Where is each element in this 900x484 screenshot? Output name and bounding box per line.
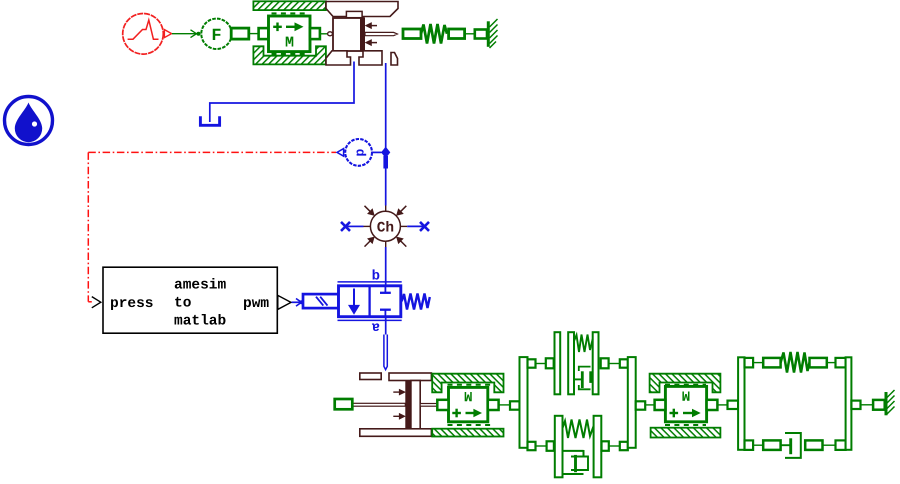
- plug X right: [420, 222, 429, 231]
- SD2 right port: [602, 441, 609, 451]
- svg-text:amesim: amesim: [174, 278, 227, 294]
- interface block amesim-to-matlab: [103, 267, 277, 333]
- spool arrow lower: [366, 40, 377, 45]
- damper D1: [781, 433, 801, 458]
- solenoid actuator: [303, 294, 339, 308]
- svg-text:F: F: [211, 27, 221, 46]
- fork2 left stub: [728, 401, 739, 409]
- fork2 left bar: [738, 357, 744, 450]
- svg-text:pwm: pwm: [243, 296, 269, 312]
- fork2 left bottom port: [745, 440, 754, 450]
- damper D1 connector right: [805, 440, 822, 450]
- chamber Ch: [364, 206, 408, 248]
- wire fork2 to spring: [753, 362, 763, 364]
- valve port label a (flipped): [371, 319, 380, 335]
- spring K2 connector right: [810, 358, 827, 368]
- SD1 plate 1: [555, 332, 561, 394]
- valve frame line bottom: [338, 319, 402, 321]
- fork1 left bottom port: [528, 442, 536, 450]
- fork1 right bar: [628, 357, 636, 448]
- jack rod end connector: [335, 399, 353, 409]
- fork2 right bottom port: [836, 440, 846, 450]
- mass M2 top housing (hatched bracket): [432, 374, 503, 393]
- signal wire to F: [172, 30, 197, 38]
- svg-text:M: M: [682, 386, 690, 402]
- svg-text:b: b: [372, 269, 380, 285]
- friction contact dashes top: [272, 12, 308, 14]
- jack bottom plate: [360, 429, 432, 437]
- hydraulic pipe valve to tank: [210, 62, 354, 123]
- fork1 left bar: [520, 357, 528, 448]
- wire damper to fork2 right: [823, 444, 836, 446]
- jack top-left plate: [360, 373, 381, 380]
- valve left cell arrow down: [348, 289, 360, 315]
- SD1 right port: [601, 358, 609, 368]
- SD1 damper: [573, 367, 592, 390]
- spring connector right: [449, 29, 465, 39]
- svg-text:press: press: [110, 296, 154, 312]
- spool drain flag: [391, 53, 398, 66]
- svg-text:p: p: [352, 149, 367, 157]
- mass M3 left port: [655, 400, 666, 410]
- fork2 right top port: [836, 358, 846, 368]
- fork2 left top port: [745, 358, 754, 368]
- jack arrow upper: [393, 390, 405, 395]
- mass M1 bottom wall tray (hatched): [253, 46, 326, 64]
- pipe chamber to valve b-port: [385, 247, 387, 286]
- mass M2 right port: [488, 400, 499, 410]
- wall right (fixed): [886, 390, 895, 415]
- valve right cell plugged ports: [380, 286, 391, 317]
- SD1 plate 2: [568, 332, 574, 394]
- pressure tap junction: [381, 147, 390, 169]
- mass M3 top housing (hatched bracket): [650, 374, 721, 393]
- jack top-right plate: [389, 373, 431, 381]
- spool rod to spring: [365, 32, 397, 35]
- signal feedback dash-dot wire: [88, 152, 336, 301]
- jack arrow lower: [393, 414, 405, 419]
- wire M2 to fork1: [499, 404, 510, 406]
- signal source output port: [164, 30, 171, 38]
- hydraulic pipe valve to chamber (vertical): [385, 63, 387, 206]
- mass M1 top wall (hatched): [253, 1, 326, 10]
- fork1 left stub: [510, 401, 520, 409]
- SD2 damper: [563, 450, 589, 474]
- connector rod F to mass: [231, 28, 268, 39]
- SD1 plate 3: [593, 332, 599, 394]
- fork1 right stub: [636, 401, 646, 409]
- friction contact dashes bottom: [272, 53, 308, 55]
- chamber right plug line: [407, 225, 423, 227]
- damper D1 connector left: [763, 440, 780, 450]
- wire fork1 to M3: [645, 404, 654, 406]
- svg-text:M: M: [285, 35, 294, 52]
- SD1 spring: [574, 335, 593, 353]
- chamber arrow bottom-right: [397, 237, 407, 246]
- jack rod right: [420, 404, 437, 407]
- fork2 right stub: [851, 401, 860, 409]
- servovalve spool top cover: [326, 2, 398, 17]
- fork1 left top port: [528, 359, 536, 367]
- spool body: [333, 18, 364, 51]
- jack rod left: [352, 403, 405, 406]
- wire fork1 to sd2: [536, 445, 547, 447]
- spring-damper SD1 left port: [546, 358, 554, 368]
- wall (fixed): [488, 19, 497, 48]
- mass M1 body: [269, 16, 311, 52]
- mass M3 right port: [707, 400, 718, 410]
- interface output port: [278, 295, 291, 309]
- pipe valve a-port down: [385, 317, 387, 335]
- spring-damper SD2 left port: [547, 441, 554, 451]
- spring K2 connector left: [763, 358, 780, 368]
- svg-text:matlab: matlab: [174, 314, 227, 330]
- spring connector left: [403, 29, 421, 39]
- mass M3 body (flipped): [665, 386, 706, 421]
- spool sleeve bottom left: [326, 51, 351, 65]
- jack piston body: [411, 381, 420, 429]
- SD2 plate 1: [555, 416, 563, 478]
- pressure sensor signal port: [337, 149, 344, 157]
- wire sd1 to fork1 right: [609, 363, 620, 365]
- tank T1: [200, 116, 219, 125]
- spool land (dark bar): [360, 18, 365, 52]
- wall connector: [475, 30, 487, 39]
- SD2 plate 2: [594, 416, 602, 478]
- SD2 spring: [563, 420, 594, 439]
- jack piston dark land: [405, 381, 411, 429]
- spool pin left: [328, 32, 333, 36]
- wire spring to fork2 right: [827, 362, 836, 364]
- spool sleeve bottom right: [359, 51, 382, 65]
- fork1 right bottom port: [620, 442, 628, 450]
- svg-text:a: a: [371, 319, 380, 335]
- signal source (piecewise linear input): [123, 14, 164, 55]
- svg-text:to: to: [174, 296, 192, 312]
- friction dashes: [665, 384, 706, 386]
- pipe doubled segment to jack: [384, 335, 387, 370]
- mass M1 right port: [310, 28, 320, 39]
- valve frame line top: [338, 281, 402, 283]
- spring K1: [421, 24, 447, 44]
- chamber arrow bottom-left: [365, 237, 375, 246]
- interface input chevron: [92, 297, 101, 308]
- wire fork1 to sd1: [536, 363, 546, 365]
- signal wire pwm to solenoid: [292, 299, 304, 307]
- spool tab: [346, 11, 362, 17]
- plug X left: [341, 222, 350, 231]
- spool arrow upper: [366, 23, 377, 28]
- friction dashes bottom: [448, 424, 493, 426]
- wire mass to spool pin: [320, 33, 328, 35]
- friction dashes bottom: [665, 424, 706, 426]
- fluid properties icon: [5, 97, 53, 145]
- friction dashes: [448, 384, 493, 386]
- chamber arrow top-left: [365, 206, 375, 215]
- fork1 right top port: [620, 359, 628, 367]
- spring K2: [781, 352, 810, 373]
- chamber left plug line: [348, 225, 364, 227]
- svg-text:Ch: Ch: [377, 221, 394, 237]
- wire sd2 to fork1 right: [609, 445, 620, 447]
- valve return spring: [402, 294, 430, 310]
- 2-position valve body: [339, 286, 401, 317]
- pressure sensor P1: [345, 139, 381, 166]
- wire fork2 to wall: [861, 404, 874, 406]
- fork2 right bar: [846, 357, 852, 450]
- mass M2 body (flipped): [449, 387, 488, 422]
- wire fork2 to damper: [753, 444, 763, 446]
- mass M2 left port: [437, 400, 448, 410]
- wall connector right: [873, 400, 885, 410]
- chamber arrow top-right: [397, 206, 407, 215]
- mass M2 bottom wall (hatched): [432, 429, 503, 437]
- F signal-to-force converter: [201, 19, 231, 49]
- svg-text:M: M: [464, 387, 472, 403]
- wire M3 to fork2: [717, 404, 727, 406]
- wire to wall: [465, 33, 475, 35]
- mass M3 bottom wall (hatched): [651, 428, 721, 438]
